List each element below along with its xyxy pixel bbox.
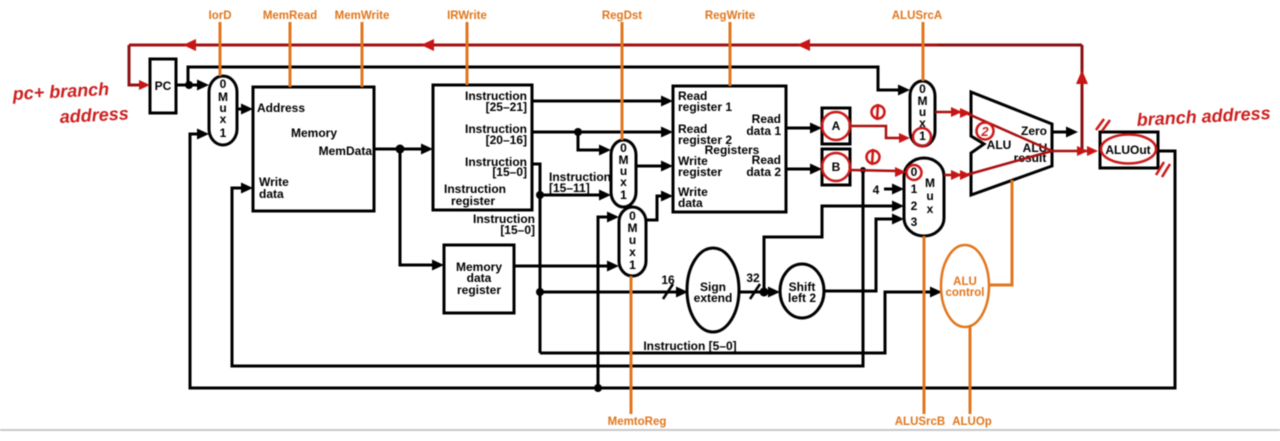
svg-text:RegDst: RegDst [602,10,642,22]
svg-text:4: 4 [873,183,880,197]
svg-text:left 2: left 2 [788,291,816,305]
svg-text:B: B [832,160,841,174]
svg-text:0: 0 [220,77,227,91]
svg-text:16: 16 [661,273,675,287]
svg-text:u: u [926,189,933,203]
svg-text:PC: PC [155,79,172,93]
svg-text:A: A [832,119,841,133]
svg-text:2: 2 [980,124,989,139]
svg-text:0: 0 [911,165,918,179]
svg-text:extend: extend [694,291,733,305]
svg-text:IRWrite: IRWrite [447,10,487,22]
svg-text:[20–16]: [20–16] [486,133,527,147]
svg-text:Instruction [5–0]: Instruction [5–0] [643,339,736,353]
svg-text:data: data [678,196,703,210]
svg-text:1: 1 [629,258,636,272]
svg-text:Memory: Memory [291,126,337,140]
svg-text:[15–0]: [15–0] [500,223,535,237]
svg-text:[15–11]: [15–11] [549,181,590,195]
svg-text:ALUOp: ALUOp [952,416,992,428]
svg-text:address: address [59,103,129,127]
svg-text:Zero: Zero [1021,124,1047,138]
svg-text:1: 1 [919,129,926,143]
svg-text:x: x [927,202,934,216]
svg-text:x: x [620,175,627,189]
svg-text:MemWrite: MemWrite [335,10,390,22]
svg-text:control: control [946,287,985,299]
svg-text:MemRead: MemRead [263,10,317,22]
svg-text:1: 1 [620,188,627,202]
svg-text:MemtoReg: MemtoReg [608,416,667,428]
svg-text:register: register [451,194,495,208]
svg-text:[25–21]: [25–21] [486,100,527,114]
svg-text:IorD: IorD [209,10,232,22]
svg-text:Address: Address [257,101,305,115]
svg-text:register 1: register 1 [678,100,732,114]
svg-text:M: M [925,176,935,190]
svg-text:[15–0]: [15–0] [492,165,527,179]
svg-text:ALUSrcB: ALUSrcB [895,416,945,428]
svg-text:3: 3 [911,215,918,229]
svg-text:1: 1 [911,182,918,196]
svg-text:register: register [678,165,722,179]
svg-text:MemData: MemData [319,144,373,158]
svg-text:ALUSrcA: ALUSrcA [892,10,942,22]
svg-text:register: register [457,283,501,297]
svg-text:data 1: data 1 [746,124,781,138]
svg-text:ALU: ALU [987,138,1012,152]
svg-text:data 2: data 2 [746,165,781,179]
svg-text:data: data [259,187,284,201]
svg-text:x: x [629,245,636,259]
svg-text:x: x [220,112,227,126]
svg-text:RegWrite: RegWrite [705,10,755,22]
svg-text:32: 32 [746,271,760,285]
svg-text:2: 2 [911,199,918,213]
svg-text:1: 1 [220,126,227,140]
svg-text:ALUOut: ALUOut [1105,143,1150,157]
